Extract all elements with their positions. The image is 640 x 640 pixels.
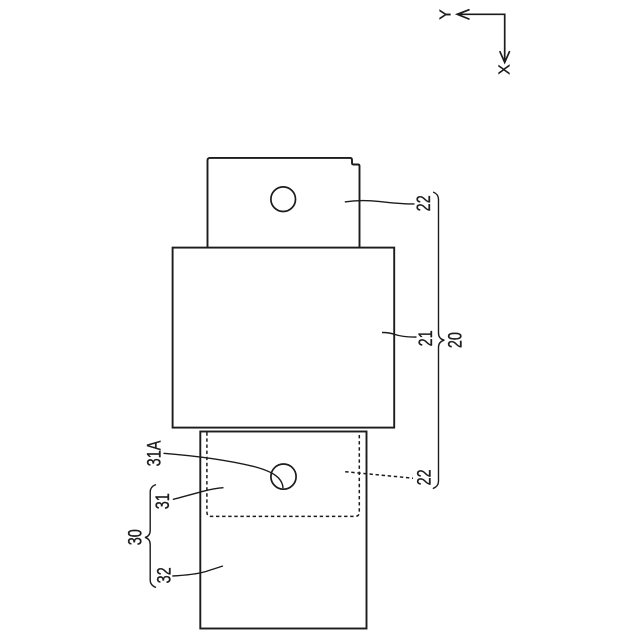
svg-text:32: 32 bbox=[152, 567, 175, 583]
svg-text:22: 22 bbox=[412, 195, 435, 211]
svg-text:Y: Y bbox=[438, 9, 455, 20]
svg-text:31A: 31A bbox=[143, 440, 166, 466]
svg-text:21: 21 bbox=[414, 330, 437, 346]
svg-text:31: 31 bbox=[151, 493, 174, 509]
svg-text:30: 30 bbox=[124, 529, 147, 545]
svg-text:X: X bbox=[497, 64, 514, 75]
svg-text:20: 20 bbox=[443, 332, 466, 348]
svg-text:22: 22 bbox=[413, 469, 436, 485]
